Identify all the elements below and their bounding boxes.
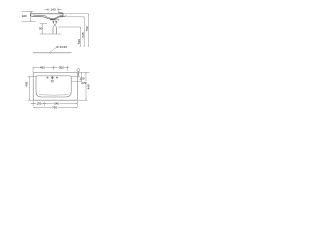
svg-text:50: 50 <box>39 26 43 30</box>
basin outer rect <box>33 72 77 100</box>
dim 100 (left vertical) <box>22 11 36 21</box>
leader with note <box>49 48 56 53</box>
svg-text:760: 760 <box>52 106 57 110</box>
tap holes <box>47 77 59 81</box>
svg-text:195: 195 <box>36 102 41 106</box>
basin profile (side) <box>30 13 66 19</box>
overflow <box>51 80 54 82</box>
top dims: 450 / 300 <box>33 66 70 73</box>
right height chain: extension lines <box>58 14 88 27</box>
svg-text:Ø 40/45: Ø 40/45 <box>56 45 67 49</box>
dim 50 (vertical, left of pipe) <box>40 24 62 35</box>
drain flange under bowl <box>50 19 59 21</box>
svg-text:530: 530 <box>77 39 81 44</box>
svg-text:450: 450 <box>40 65 45 69</box>
svg-text:645: 645 <box>81 32 85 37</box>
bottom dims: 195 / 540 then 760 <box>31 100 78 107</box>
dim 140 arrows <box>46 9 59 10</box>
svg-text:140: 140 <box>50 8 55 12</box>
svg-text:440: 440 <box>87 84 91 89</box>
svg-text:750: 750 <box>85 26 89 31</box>
dim 140 (top): ticks <box>45 8 62 11</box>
svg-text:100: 100 <box>22 14 27 18</box>
bowl inner bottom chord <box>39 94 69 96</box>
svg-text:300: 300 <box>59 65 64 69</box>
drain arrows + X <box>52 21 57 23</box>
detail callout (lollipop) <box>77 69 80 72</box>
deck step arrow <box>58 11 60 13</box>
svg-text:270: 270 <box>81 81 86 85</box>
right dims of plan <box>71 72 89 100</box>
svg-text:405: 405 <box>24 81 28 86</box>
floor line <box>33 52 72 54</box>
chain arrowheads <box>80 14 89 47</box>
left dim 405 <box>28 77 37 101</box>
right height chain: dim lines <box>80 14 88 47</box>
bowl inner outline <box>36 76 71 97</box>
tail pipe <box>53 28 57 34</box>
dim 140 label <box>50 8 55 11</box>
